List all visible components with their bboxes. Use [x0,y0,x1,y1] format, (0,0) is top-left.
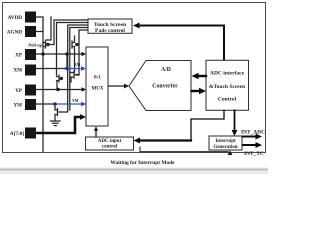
svg-text:Touch Screen: Touch Screen [94,22,127,28]
svg-text:Generation: Generation [213,145,237,150]
svg-text:Converter: Converter [152,84,178,90]
svg-text:YM: YM [72,99,79,103]
svg-text:Pull-up: Pull-up [28,43,42,48]
svg-text:AGND: AGND [7,30,23,36]
svg-text:Interrupt: Interrupt [215,139,236,144]
svg-text:XM: XM [74,63,81,67]
svg-text:INT_ADC: INT_ADC [241,130,265,136]
svg-text:XP: XP [15,53,23,59]
svg-text:ADC interface: ADC interface [210,71,245,77]
svg-text:control: control [102,145,118,150]
svg-text:A/D: A/D [161,67,171,73]
svg-text:YP: YP [15,88,23,94]
svg-text:Control: Control [218,97,237,103]
svg-text:&Touch Screen: &Touch Screen [209,84,245,90]
svg-text:INT_TC: INT_TC [244,151,264,157]
svg-text:MUX: MUX [92,87,104,92]
svg-text:8:1: 8:1 [94,76,101,81]
svg-text:Waiting for Interrupt Mode: Waiting for Interrupt Mode [110,160,175,166]
svg-text:YM: YM [13,103,22,109]
svg-text:ADC input: ADC input [98,139,122,144]
svg-text:A[7:0]: A[7:0] [10,131,24,137]
svg-text:AVDD: AVDD [8,15,23,21]
svg-text:XM: XM [13,68,22,74]
svg-text:Pads control: Pads control [95,28,125,34]
